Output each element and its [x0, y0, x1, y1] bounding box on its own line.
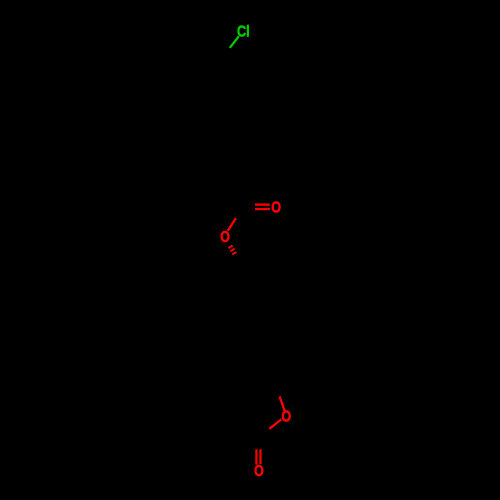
ester C=O double bond (red halves, two parallel lines): [255, 205, 270, 209]
svg-text:O: O: [281, 407, 291, 424]
svg-text:O: O: [254, 462, 264, 479]
atom label Cl (chlorine): [237, 22, 250, 39]
bond C-Cl (green half-bond): [230, 36, 239, 48]
bond C5-O ring (red half-bond into lactone oxygen): [280, 397, 285, 412]
lactone C=O double bond (two vertical red half-lines): [256, 449, 260, 464]
atom label O (ester oxygen): [220, 228, 230, 245]
svg-text:O: O: [220, 228, 230, 245]
atom label O (lactone ring oxygen): [281, 407, 291, 424]
atom label O (ester carbonyl oxygen): [271, 198, 281, 215]
bond O-C2 ring (red half-bond toward carbonyl carbon): [269, 419, 281, 428]
hashed wedge stereo bond (three red dashes): [228, 246, 236, 255]
bond C-O ester (red half-bond): [228, 218, 236, 231]
atom label O (lactone carbonyl oxygen): [254, 462, 264, 479]
svg-text:O: O: [271, 198, 281, 215]
